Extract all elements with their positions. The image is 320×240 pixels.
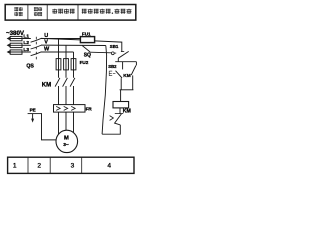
fuse FU L3 <box>10 50 22 54</box>
node stub <box>117 58 119 61</box>
motor M <box>56 130 78 152</box>
arrow L1 <box>7 37 10 41</box>
thermal relay FR box <box>54 105 86 113</box>
fuse FU2 phase2 <box>64 59 69 70</box>
fuse FU L1 <box>10 36 22 40</box>
wire W <box>41 51 74 53</box>
svg-text:L3: L3 <box>23 47 29 53</box>
limit switch SQ blade <box>82 46 90 52</box>
rejoin bar <box>120 89 134 91</box>
header cell3 text 主电动机 <box>52 9 74 14</box>
svg-text:KM: KM <box>42 83 51 89</box>
svg-text:L1: L1 <box>23 33 29 39</box>
bottom table <box>8 157 134 173</box>
svg-text:FU2: FU2 <box>80 60 89 65</box>
PE wire to motor <box>42 114 57 140</box>
wires FR to motor <box>59 112 74 134</box>
SB2 contact blade <box>116 71 123 78</box>
fuse FU2 phase3 <box>71 59 76 70</box>
wire coil to FR contact <box>119 108 121 114</box>
wire L1 feeder <box>10 38 31 40</box>
wire L2 feeder <box>10 44 31 46</box>
svg-text:KM: KM <box>123 109 131 115</box>
svg-text:SQ: SQ <box>84 52 91 58</box>
contactor KM main blades <box>55 78 75 87</box>
svg-text:QS: QS <box>26 63 34 69</box>
PE bar <box>28 113 42 115</box>
svg-text:2: 2 <box>37 162 41 169</box>
svg-text:FU1: FU1 <box>82 32 91 37</box>
FR heater elements <box>56 106 75 110</box>
fuse FU1 <box>80 37 94 43</box>
svg-text:PE: PE <box>30 108 36 113</box>
wire U <box>41 38 80 40</box>
svg-text:V: V <box>44 40 48 46</box>
wire SQ to SB1 <box>90 51 111 54</box>
SB2 actuator E <box>109 71 115 76</box>
header cell1 text 电源/保护 <box>14 7 22 16</box>
wire FU1 to SB1 <box>95 41 122 52</box>
wire W drop <box>73 52 75 59</box>
FR NC contact <box>115 113 123 115</box>
wires fuse to contacts <box>59 59 74 78</box>
svg-text:SB1: SB1 <box>110 44 119 49</box>
fuse FU2 phase1 <box>56 59 61 70</box>
svg-text:3~: 3~ <box>63 142 69 148</box>
svg-text:KM: KM <box>123 73 130 79</box>
svg-text:U: U <box>44 33 48 39</box>
svg-text:SB2: SB2 <box>108 64 117 69</box>
wire L3 feeder <box>10 51 31 53</box>
svg-text:1: 1 <box>13 162 17 169</box>
header cell4 text 主电动机起、停控制 <box>82 9 132 14</box>
arrow L2 <box>7 44 10 48</box>
wire V <box>41 44 106 46</box>
svg-text:4: 4 <box>107 162 111 169</box>
switch QS linkage dashed <box>35 37 37 61</box>
wire FR contact down <box>102 125 120 134</box>
wire U drop <box>58 39 60 59</box>
header table <box>5 5 136 21</box>
PE arrow <box>32 114 34 119</box>
wire V drop <box>65 45 67 58</box>
arrow L3 <box>7 50 10 54</box>
wire to coil <box>120 90 122 102</box>
wires contacts to FR <box>59 86 74 105</box>
svg-text:3: 3 <box>71 162 75 169</box>
left rail <box>102 46 107 135</box>
SB2 top terminal <box>122 62 124 70</box>
svg-text:W: W <box>44 47 50 53</box>
svg-text:FR: FR <box>86 107 93 112</box>
switch QS blades <box>31 38 42 55</box>
svg-text:M: M <box>64 136 69 142</box>
fuse FU L2 <box>10 43 22 47</box>
header cell2 text 电源/开关 <box>34 7 42 16</box>
contactor coil KM <box>113 102 129 108</box>
svg-text:L2: L2 <box>23 40 29 46</box>
wire U to FU1 <box>41 38 80 40</box>
KM aux contact <box>135 62 137 66</box>
